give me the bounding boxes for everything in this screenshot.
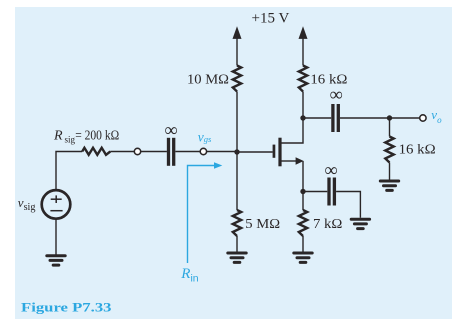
source vsig circle (42, 190, 71, 219)
transistor Q1 channel bar (278, 138, 281, 167)
node output junction (387, 115, 392, 120)
svg-text:5 MΩ: 5 MΩ (245, 217, 280, 232)
Rsig value label (53, 129, 119, 145)
svg-text:+15 V: +15 V (252, 10, 290, 26)
supply arrow left (233, 26, 242, 65)
supply arrow right (299, 26, 308, 65)
wire left column lower (236, 152, 238, 210)
svg-text:= 200 kΩ: = 200 kΩ (75, 129, 119, 144)
resistor R 5M (233, 210, 241, 236)
wire drain junction to C2 (303, 117, 331, 119)
transistor Q1 gate bar (273, 145, 276, 158)
ground under bypass cap (351, 219, 369, 228)
node drain junction (300, 115, 305, 120)
node gate junction (234, 149, 239, 154)
svg-text:7 kΩ: 7 kΩ (313, 217, 342, 232)
wire vsig to ground (55, 219, 57, 255)
svg-text:R: R (53, 129, 63, 144)
minus sign (50, 210, 62, 212)
wire node to C1 (141, 151, 167, 153)
wire C3 to bypass ground (336, 192, 360, 218)
Rin indicator arrow (188, 166, 217, 264)
ground under 7k (294, 253, 312, 262)
wire source junction to 7k (302, 192, 304, 211)
svg-text:16 kΩ: 16 kΩ (399, 142, 436, 157)
ground under vsig (47, 256, 65, 265)
svg-text:∞: ∞ (165, 121, 178, 141)
node open circle vgs (200, 148, 206, 154)
wire Rsig to open node (110, 151, 134, 153)
wire right column upper (302, 92, 304, 119)
svg-text:∞: ∞ (330, 86, 343, 106)
plus sign (51, 195, 62, 203)
svg-text:∞: ∞ (325, 161, 338, 181)
svg-text:sig: sig (65, 135, 76, 145)
svg-text:Figure P7.33: Figure P7.33 (21, 299, 112, 314)
ground under 16k right (380, 181, 398, 190)
capacitor C2 bars (333, 104, 338, 132)
resistor R 16k top (299, 66, 307, 92)
node source junction (300, 189, 305, 194)
wire vgs node to gate junction (207, 151, 238, 153)
resistor R 7k (299, 210, 307, 236)
wire vsig top corner to Rsig (56, 152, 82, 191)
capacitor C3 bars (329, 178, 334, 206)
wire 5M to ground (236, 236, 238, 252)
resistor Rsig (82, 148, 110, 155)
resistor R 16k right (385, 137, 393, 163)
capacitor C1 bars (169, 138, 174, 166)
wire output junction down (389, 118, 391, 137)
svg-text:10 MΩ: 10 MΩ (187, 73, 229, 88)
wire C1 to vgs node (175, 151, 200, 153)
wire left column upper (236, 92, 238, 153)
wire C2 to vo (340, 117, 420, 119)
wire 16k right to ground (389, 163, 391, 180)
wire 7k to ground (302, 236, 304, 252)
resistor R 10M (233, 66, 241, 92)
wire source junction to C3 (303, 191, 327, 193)
transistor Q1 source lead with arrow (282, 157, 304, 164)
wire gate lead (237, 151, 273, 153)
wire drain junction to drain corner (282, 118, 304, 143)
ground under 5M (228, 253, 246, 262)
node open circle vo (420, 115, 426, 121)
node open circle after Rsig (134, 148, 140, 154)
wire source down (302, 161, 304, 192)
